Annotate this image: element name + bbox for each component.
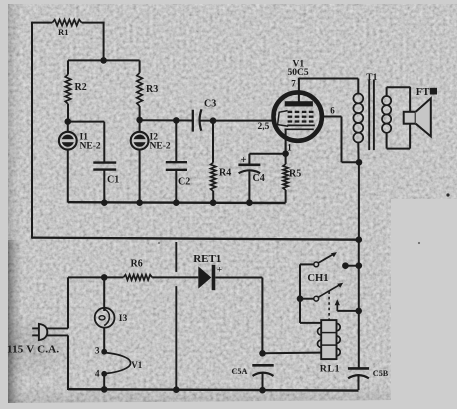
svg-text:I3: I3 [119,314,128,324]
svg-text:R5: R5 [289,168,301,179]
svg-text:R1: R1 [58,27,69,37]
svg-text:NE-2: NE-2 [80,141,101,151]
svg-text:C5A: C5A [232,367,248,376]
svg-text:C1: C1 [107,175,119,186]
svg-text:3: 3 [95,346,100,356]
svg-text:C5B: C5B [373,369,389,378]
svg-text:C3: C3 [204,99,216,110]
svg-text:FT: FT [416,87,430,98]
svg-text:C4: C4 [253,173,265,184]
svg-text:RET1: RET1 [193,253,221,265]
svg-text:+: + [217,265,222,275]
svg-text:1: 1 [287,143,292,153]
svg-text:7: 7 [291,79,296,89]
svg-text:CH1: CH1 [307,273,328,284]
svg-text:6: 6 [330,106,335,116]
svg-text:T1: T1 [366,73,377,83]
svg-text:V1: V1 [131,360,142,370]
svg-text:R2: R2 [75,82,87,93]
svg-text:50C5: 50C5 [288,68,309,78]
svg-text:C2: C2 [178,176,190,187]
svg-text:2,5: 2,5 [258,122,270,132]
svg-text:RL1: RL1 [320,364,340,375]
svg-text:NE-2: NE-2 [150,141,171,151]
svg-text:R6: R6 [131,258,143,269]
svg-text:R3: R3 [146,84,158,95]
svg-text:+: + [241,155,247,166]
svg-text:4: 4 [95,368,100,378]
svg-text:115 V C.A.: 115 V C.A. [7,344,59,356]
svg-text:R4: R4 [219,168,231,179]
